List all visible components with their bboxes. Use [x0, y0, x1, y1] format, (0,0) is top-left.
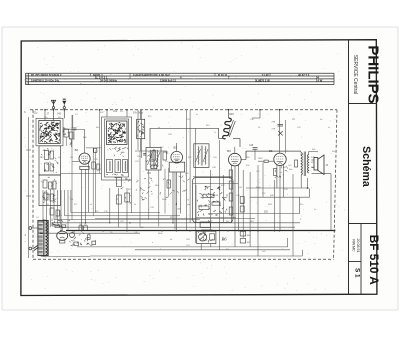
title block: section line under PHILIPS: [349, 103, 378, 105]
bus line 2: [60, 226, 295, 228]
aerial coil unit inner box: [39, 121, 60, 144]
oscillator unit outer can: [102, 117, 132, 180]
B+ wire over B5 to OPT: [246, 150, 301, 152]
tube B2 envelope: [79, 153, 90, 164]
svg-text:1x: 1x: [328, 127, 330, 129]
svg-text:2u: 2u: [314, 209, 316, 211]
output transformer core: [303, 152, 305, 177]
svg-text:343: 343: [229, 112, 234, 116]
dark bar on bus above B6: [201, 230, 213, 232]
dashed chassis boundary top: [30, 109, 337, 111]
component value table: [26, 72, 335, 74]
svg-text:40 67 7 2: 40 67 7 2: [298, 73, 310, 77]
OPT leads: [300, 151, 302, 152]
aerial coil unit outer can: [36, 118, 63, 146]
wires above cans to dashed line: [106, 110, 108, 117]
antenna symbol: [51, 100, 56, 106]
scan noise speckle: [24, 43, 342, 290]
svg-text:PHILIPS: PHILIPS: [364, 45, 381, 103]
svg-text:1uB4C3uB0070 61F 4 3K 8u2: 1uB4C3uB0070 61F 4 3K 8u2: [133, 73, 170, 77]
resistors beside gang1: [64, 129, 69, 137]
coil can 1 lower box: [39, 175, 61, 206]
svg-text:7n: 7n: [214, 132, 216, 134]
tube B2 leads: [81, 169, 83, 230]
wire from choke to B4 area: [233, 138, 240, 140]
volume control B6 unit box: [197, 231, 216, 243]
transformer core lines: [43, 219, 45, 256]
horizontal links left area: [71, 212, 160, 214]
paper edge shadows: [2, 26, 398, 28]
B5 cathode cluster: [274, 166, 288, 178]
wire between can1 and can2: [61, 173, 102, 175]
detector small caps: [195, 185, 197, 222]
tube B3 envelope: [171, 151, 183, 163]
IF transformer 1 can: [146, 148, 161, 171]
svg-text:31x: 31x: [165, 161, 168, 163]
main HT bus (dark): [66, 230, 335, 232]
bus line 0: [95, 218, 255, 220]
speaker: [314, 158, 318, 171]
antenna lead-in wires: [53, 109, 55, 121]
midfield long verticals: [139, 151, 141, 226]
B5 grid resistor: [264, 160, 268, 162]
feedback wire level 246.9 corner: [287, 238, 289, 247]
table column ticks: [90, 73, 92, 76]
detector network resistors: [229, 170, 232, 178]
B2 left wire: [72, 161, 79, 163]
coil can 1 mid box: [39, 146, 61, 175]
can2 lower parts: [106, 174, 127, 179]
svg-text:5L9870 2 W: 5L9870 2 W: [255, 78, 270, 82]
caps between gangs: [72, 127, 77, 129]
svg-text:12kW 6u0 11: 12kW 6u0 11: [160, 78, 176, 82]
outer border frame: [21, 40, 377, 296]
nested wire level 188: [246, 187, 308, 189]
avc resistors horizontal: [203, 194, 214, 197]
AVC line to B3 grid: [135, 150, 167, 152]
stub from top dashed line: [259, 110, 261, 118]
svg-text:11 4C: 11 4C: [262, 73, 269, 77]
svg-text:R1 205 39018 7Ck39 B 2: R1 205 39018 7Ck39 B 2: [31, 73, 62, 77]
title block: internal vertical divider bottom section: [360, 224, 362, 295]
volume control B6 pot: [199, 233, 207, 241]
svg-text:14 W: 14 W: [316, 78, 323, 82]
svg-text:B6: B6: [222, 237, 228, 242]
small box 302 below IF1: [151, 165, 157, 169]
svg-text:34c: 34c: [96, 127, 99, 129]
vertical feeds above PSU: [51, 219, 53, 222]
wires from gang1 down: [57, 190, 59, 223]
B5 leads: [276, 165, 278, 188]
ferrocart coil box: [137, 119, 145, 138]
svg-text:34-345 500Hz: 34-345 500Hz: [100, 78, 118, 82]
psu small resistors above: [50, 208, 54, 215]
nested wire level 213: [208, 213, 300, 215]
dashed chassis boundary right: [334, 110, 337, 259]
parts below IF1: [136, 178, 152, 200]
resistor chain right of can2: [117, 178, 122, 187]
svg-text:Schéma: Schéma: [360, 146, 372, 187]
small coil boxes in can 2: [107, 160, 113, 173]
svg-text:1948798 0.10 4 Du 34c: 1948798 0.10 4 Du 34c: [31, 78, 60, 82]
tube B3 leads: [172, 172, 174, 223]
tube B4 envelope: [229, 153, 242, 166]
title block: section line above BF510A block: [349, 223, 378, 225]
IF transformer 2 can: [194, 144, 209, 168]
bus line 1: [52, 222, 300, 224]
title block: divider above S 1: [349, 261, 362, 263]
tuning arrow coil 2: [109, 124, 125, 141]
power transformer frame: [38, 220, 48, 255]
tube B4 leads: [230, 165, 232, 223]
tube B2 base: [80, 166, 89, 169]
detector unit rounded enclosure: [193, 178, 234, 223]
svg-text:C48: C48: [249, 145, 254, 147]
oscillator unit inner box: [107, 121, 128, 145]
wires from can2 down: [109, 188, 111, 223]
choke connection wires: [228, 110, 230, 118]
tuning arrow coil 1: [42, 123, 59, 141]
wire beside can2: [99, 110, 101, 174]
vertical feeds mid-page: [137, 110, 139, 150]
svg-text:SERVICE Central: SERVICE Central: [352, 55, 358, 94]
caps left of IF1: [143, 153, 146, 155]
tube B3 base box: [169, 162, 185, 172]
transformer winding right: [46, 221, 47, 255]
svg-text:17n 2Kxx: 17n 2Kxx: [133, 112, 144, 115]
svg-text:1k: 1k: [134, 204, 136, 206]
earth/ground terminal arrow: [62, 101, 66, 105]
svg-text:20.08.51: 20.08.51: [356, 239, 360, 253]
svg-text:S 1: S 1: [353, 268, 360, 278]
IF1 trim arrows: [148, 152, 161, 165]
svg-text:342: 342: [57, 113, 62, 116]
dashed chassis boundary left: [32, 110, 34, 259]
svg-text:J0n: J0n: [300, 154, 303, 156]
svg-text:21c: 21c: [120, 111, 123, 113]
transformer lamination hatch: [38, 222, 42, 254]
svg-text:R 10 11: R 10 11: [218, 73, 228, 77]
ground return line: [90, 255, 302, 257]
right small boxes: [240, 197, 244, 204]
output transformer windings: [301, 153, 302, 176]
svg-text:31f: 31f: [226, 249, 229, 251]
can2 upper parts: [107, 147, 128, 157]
B4 plate wire to right: [241, 159, 246, 161]
B5 plate/screen feed from top: [279, 110, 281, 153]
svg-text:B2: B2: [75, 148, 79, 152]
box at detector bottom: [200, 222, 210, 228]
svg-text:3x2: 3x2: [113, 109, 118, 113]
svg-text:7x: 7x: [60, 215, 62, 217]
rectifier tube B7: [57, 231, 68, 240]
svg-text:A-51: A-51: [208, 220, 213, 223]
bus line 4: [135, 249, 290, 251]
rectifier base: [60, 240, 65, 243]
tube B5 envelope: [274, 153, 286, 165]
transformer bottom wires: [40, 255, 42, 257]
svg-text:30c: 30c: [332, 151, 335, 153]
resistor near OPT: [295, 160, 298, 167]
nested verticals: [242, 170, 244, 238]
dashed chassis boundary bottom: [33, 258, 334, 260]
svg-text:B4: B4: [227, 149, 231, 153]
speaker return wire: [312, 173, 332, 175]
heater wires boxes: [79, 226, 83, 231]
caps above transformer: [55, 225, 60, 228]
title block column divider: [348, 40, 350, 295]
mains switch: [34, 246, 39, 251]
wire B+ rail: [77, 246, 288, 248]
tube B2 electrodes: [81, 155, 88, 157]
oscillator unit mid can: [105, 119, 129, 177]
nested wire level 197: [250, 196, 310, 198]
left margin vertical wire: [28, 117, 30, 258]
rectifier output components: [70, 233, 75, 238]
components right of B2: [92, 148, 94, 216]
bus line short: [40, 232, 140, 234]
mains terminals: [29, 227, 32, 230]
svg-text:1M: 1M: [70, 157, 73, 159]
svg-text:BF 510 A: BF 510 A: [367, 235, 381, 286]
svg-text:RW.MC: RW.MC: [352, 239, 356, 252]
